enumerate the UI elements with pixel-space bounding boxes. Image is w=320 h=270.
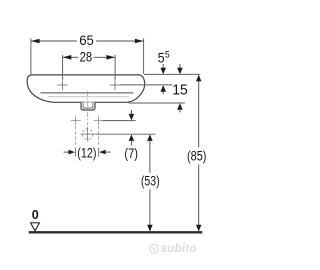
dimension 85 bottom arrow	[196, 225, 202, 232]
dimension 53 top arrow	[147, 134, 153, 141]
trap-level extension line	[95, 133, 155, 135]
dimension 65 line	[31, 40, 77, 42]
dimension 65 right arrow	[135, 39, 144, 44]
dimension 85 top arrow	[196, 75, 202, 82]
lower cross left	[71, 116, 81, 126]
dimension 12 left tick	[75, 148, 77, 157]
lower cross right dashed line	[98, 126, 100, 145]
svg-text:15: 15	[172, 82, 188, 98]
svg-text:65: 65	[79, 33, 94, 48]
svg-text:(85): (85)	[187, 148, 206, 163]
dimension 65 left arrow	[31, 39, 40, 44]
svg-text:0: 0	[32, 208, 39, 222]
dimension 28 line	[63, 56, 78, 58]
basin-bottom extension line right	[129, 102, 185, 104]
washbasin outer outline (side profile)	[27, 75, 145, 102]
svg-text:28: 28	[80, 50, 93, 65]
dimension 15 lower arrow	[177, 103, 183, 110]
svg-text:5: 5	[165, 50, 170, 61]
lower cross left dashed line	[75, 126, 77, 145]
hole-level extension line right	[120, 84, 172, 86]
dimension 5.5 upper arrow	[162, 64, 164, 68]
drain stub outer	[81, 102, 95, 110]
svg-text:5: 5	[158, 50, 165, 66]
dimension 53 line	[149, 140, 151, 172]
cross-level extension line	[103, 120, 136, 122]
svg-text:(53): (53)	[141, 174, 160, 189]
dimension 53 bottom arrow	[147, 225, 153, 232]
dimension 5.5 lower arrow	[160, 85, 166, 92]
datum triangle	[31, 223, 40, 231]
svg-text:s: s	[152, 245, 156, 254]
65 right extension line	[143, 38, 145, 73]
floor line	[29, 231, 203, 233]
rim-level extension line right	[144, 73, 200, 75]
65 left extension line	[30, 38, 32, 74]
28 left extension line	[62, 55, 64, 80]
dimension 7 upper arrow	[130, 110, 132, 115]
left fixing hole cross	[57, 80, 67, 90]
dimension 28 right arrow	[106, 55, 115, 60]
washbasin inner rim line	[41, 92, 134, 94]
dimension 28 left arrow	[63, 55, 72, 60]
svg-text:(7): (7)	[124, 146, 138, 161]
dimension 12 right tick	[98, 148, 100, 157]
trap circle centerline cross	[80, 127, 94, 141]
dimension 12 right arrow	[99, 150, 106, 155]
subito watermark logo circle	[150, 244, 159, 253]
washbasin inner bottom faint line	[48, 96, 129, 98]
dimension 15 upper arrow	[179, 64, 181, 68]
trap circle dashed	[82, 129, 93, 140]
svg-text:subito: subito	[161, 241, 197, 255]
dimension 12 left arrow	[64, 151, 70, 153]
dimension 7 lower arrow	[129, 134, 135, 141]
drain stub inner	[83, 102, 93, 108]
lower cross right	[94, 116, 104, 126]
dimension 85 line	[198, 75, 200, 147]
28 right extension line	[114, 55, 116, 80]
right fixing hole cross	[110, 80, 120, 90]
drain centerline dash-dot	[87, 91, 89, 126]
svg-text:(12): (12)	[77, 145, 96, 160]
